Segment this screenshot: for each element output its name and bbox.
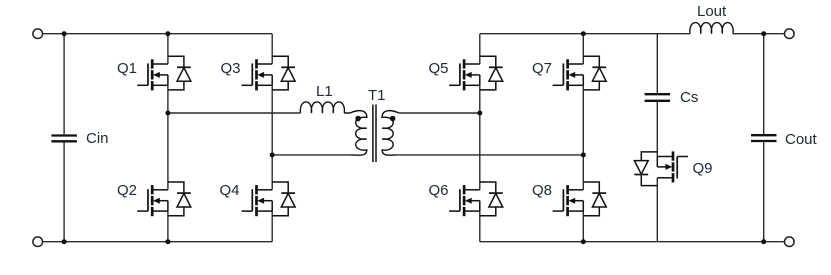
transformer T1 primary winding: [344, 111, 367, 156]
polarity dot T1 primary: [355, 116, 361, 122]
transistor Q9: [634, 151, 688, 185]
junction leg4 bottom rail: [581, 239, 586, 244]
wire Q9 drain to bottom rail: [656, 178, 658, 242]
inductor L1: [300, 102, 344, 113]
svg-text:Q5: Q5: [429, 60, 449, 77]
wire leg2 Q4 source to bottom rail: [271, 211, 273, 242]
wire phase node A to L1: [168, 112, 301, 114]
junction Cin bottom: [62, 239, 67, 244]
wire leg3 drain Q5: [479, 34, 481, 64]
svg-text:Q1: Q1: [117, 60, 137, 77]
wire Cin branch bottom: [63, 143, 65, 242]
junction Cout bottom: [761, 239, 766, 244]
wire leg4 Q8 source to bottom rail: [582, 211, 584, 242]
wire Cin branch top: [63, 34, 65, 135]
junction leg4 top rail: [581, 31, 586, 36]
svg-text:Cin: Cin: [86, 130, 109, 147]
transistor Q7: [553, 56, 607, 90]
wire leg1 drain Q1: [167, 34, 169, 64]
svg-text:L1: L1: [316, 83, 333, 100]
wire leg1 Q2 source to bottom rail: [167, 211, 169, 242]
transistor Q2: [137, 182, 191, 216]
svg-text:Lout: Lout: [697, 3, 727, 20]
wire bottom rail right bridge to output: [480, 241, 785, 243]
transistor Q8: [553, 182, 607, 216]
junction node C leg3 midpoint: [477, 111, 482, 116]
polarity dot T1 secondary: [390, 116, 396, 122]
inductor Lout: [690, 23, 733, 34]
terminal output top: [785, 29, 795, 39]
svg-text:Q4: Q4: [220, 182, 240, 199]
wire Cout branch top: [763, 34, 765, 134]
wire bottom rail left bridge: [43, 241, 273, 243]
svg-text:Q8: Q8: [532, 182, 552, 199]
capacitor Cout: [751, 135, 777, 141]
junction node A leg1 midpoint: [165, 111, 170, 116]
wire leg3 Q5 source to Q6 drain: [479, 85, 481, 190]
wire transformer secondary top to node C: [399, 112, 480, 114]
wire clamp branch top rail to Cs: [656, 34, 658, 93]
wire leg3 Q6 source to bottom rail: [479, 211, 481, 242]
terminal input top: [33, 29, 43, 39]
wire leg2 drain Q3: [271, 34, 273, 64]
transistor Q3: [242, 56, 296, 90]
terminal output bottom: [785, 237, 795, 247]
svg-text:Cout: Cout: [785, 131, 818, 148]
transistor Q4: [242, 182, 296, 216]
junction leg1 top rail: [165, 31, 170, 36]
junction Cout top: [761, 31, 766, 36]
wire leg4 drain Q7: [582, 34, 584, 64]
wire top rail after Lout to output: [733, 33, 785, 35]
capacitor Cs: [645, 94, 671, 101]
svg-text:Q7: Q7: [532, 60, 552, 77]
wire Cout branch bottom: [763, 142, 765, 242]
transformer T1 core: [373, 105, 376, 163]
junction leg1 bottom rail: [165, 239, 170, 244]
terminal input bottom: [33, 237, 43, 247]
svg-text:Q6: Q6: [429, 182, 449, 199]
junction node B leg2 midpoint: [270, 152, 275, 157]
transistor Q6: [449, 182, 503, 216]
svg-text:Q2: Q2: [117, 182, 137, 199]
wire phase node B to transformer primary bottom: [272, 154, 350, 156]
svg-text:Cs: Cs: [680, 89, 698, 106]
wire transformer secondary bottom to node D: [396, 154, 583, 156]
wire Cs to Q9 source: [656, 102, 658, 157]
junction node D leg4 midpoint: [581, 152, 586, 157]
svg-text:T1: T1: [368, 87, 386, 104]
capacitor Cin: [51, 136, 77, 142]
wire leg1 Q1 source to Q2 drain: [167, 85, 169, 190]
wire top rail right, to Lout: [480, 33, 690, 35]
svg-text:Q9: Q9: [693, 160, 713, 177]
wire leg4 Q7 source to Q8 drain: [582, 85, 584, 190]
wire leg2 Q3 source to Q4 drain: [271, 85, 273, 190]
transformer T1 secondary winding: [382, 111, 399, 156]
transistor Q5: [449, 56, 503, 90]
svg-text:Q3: Q3: [221, 60, 241, 77]
junction Cin top: [62, 31, 67, 36]
wire top rail left bridge: [43, 33, 273, 35]
transistor Q1: [137, 56, 191, 90]
